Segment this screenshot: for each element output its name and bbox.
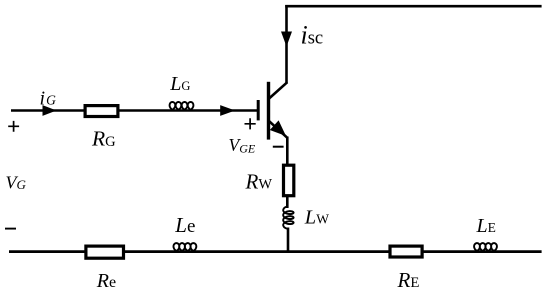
arrow: i_sc current arrow (down): [281, 32, 292, 47]
wire: R_W to L_W: [286, 197, 289, 209]
svg-text:Re: Re: [96, 270, 116, 292]
resistor R_E: [390, 246, 422, 257]
inductor L_G: [168, 102, 195, 111]
wire: emitter to R_W: [286, 137, 289, 166]
wire: gate wire from source + terminal: [11, 109, 257, 112]
inductor L_E: [473, 243, 498, 252]
transistor Q1 body bar: [267, 82, 270, 140]
transistor Q1 gate bar: [257, 100, 260, 120]
label + (source positive): [8, 121, 19, 132]
wire: collector riser (node C to top rail): [285, 5, 288, 84]
label - (source negative): [5, 228, 16, 230]
label + (gate): [245, 118, 256, 129]
resistor R_W: [284, 165, 294, 196]
arrow: gate-side arrow into transistor: [220, 105, 235, 116]
arrow: emitter arrowhead: [270, 120, 286, 136]
transistor Q1 (IGBT) collector diagonal: [269, 82, 288, 99]
resistor R_G: [85, 106, 118, 117]
wire: top rail from collector riser to right edge: [285, 5, 541, 8]
wire: bottom rail: [9, 250, 542, 253]
inductor L_W: [283, 207, 293, 229]
wire: L_W to bottom rail: [287, 228, 290, 253]
inductor L_e: [172, 243, 197, 252]
resistor R_e: [86, 246, 124, 258]
svg-text:Le: Le: [174, 213, 195, 237]
transistor Q1 emitter diagonal: [269, 121, 288, 138]
label - (V_GE minus): [273, 146, 284, 148]
arrow: i_G current arrow on gate wire: [43, 105, 57, 116]
